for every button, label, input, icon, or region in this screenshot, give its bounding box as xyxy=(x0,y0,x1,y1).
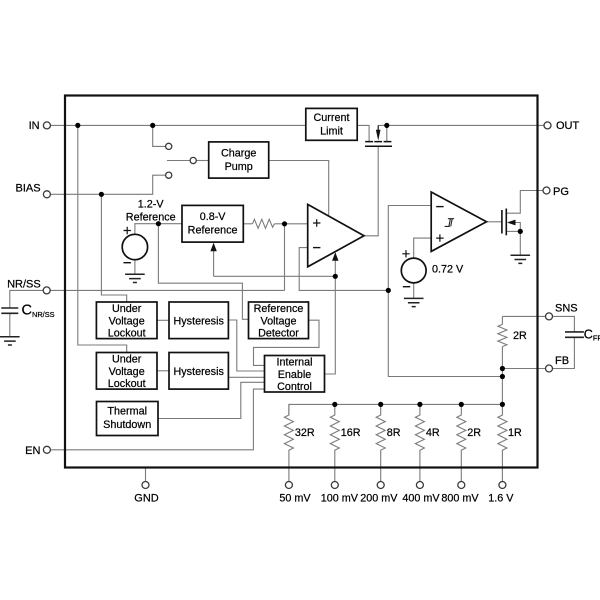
box Under Voltage Lockout 1 xyxy=(96,302,157,339)
box Hysteresis 2 xyxy=(169,353,228,390)
svg-text:32R: 32R xyxy=(295,427,315,439)
svg-text:Pump: Pump xyxy=(225,161,253,173)
svg-text:Hysteresis: Hysteresis xyxy=(173,366,224,378)
wire 2R bottom to FB xyxy=(501,347,503,369)
svg-text:OUT: OUT xyxy=(556,120,580,132)
ground under 0.72 V source xyxy=(404,298,424,306)
terminal OUT xyxy=(544,122,551,129)
LADDER RESISTORS xyxy=(284,404,507,481)
svg-text:200 mV: 200 mV xyxy=(360,492,398,504)
switch contact bottom xyxy=(166,172,172,178)
wire current-limit to pass FET source xyxy=(357,125,369,141)
voltage source 0.72 V xyxy=(401,250,426,287)
svg-text:Shutdown: Shutdown xyxy=(103,419,151,431)
wire error amp output to gate xyxy=(364,146,378,236)
resistor 1R xyxy=(498,404,507,481)
svg-text:Voltage: Voltage xyxy=(109,366,145,378)
terminal 400mV xyxy=(416,482,423,489)
terminal FB xyxy=(546,365,553,372)
wire EN to IEC xyxy=(50,389,264,450)
wire PG FET drain to PG xyxy=(506,191,543,214)
wire charge pump to error amp top xyxy=(269,161,329,217)
svg-text:FB: FB xyxy=(555,355,569,367)
BOXES xyxy=(96,108,357,435)
svg-text:0.72 V: 0.72 V xyxy=(432,263,464,275)
transistor Q2 PG NMOS xyxy=(502,209,516,236)
wire UVLO2 to Hysteresis2 xyxy=(157,370,169,372)
svg-text:SNS: SNS xyxy=(555,303,578,315)
wire switch pole to charge pump xyxy=(196,160,208,162)
node +input xyxy=(282,221,287,226)
svg-text:1R: 1R xyxy=(508,427,522,439)
terminal 100mV xyxy=(331,482,338,489)
svg-text:Voltage: Voltage xyxy=(260,315,296,327)
svg-text:8R: 8R xyxy=(387,427,401,439)
wire 0.72V source to ground xyxy=(413,283,415,298)
wire +input node to NR/SS xyxy=(284,224,286,291)
wire NR/SS external to cap xyxy=(10,290,43,308)
wire 1.2V source bottom to ground xyxy=(134,260,136,275)
node rail 4R xyxy=(417,402,422,407)
svg-text:Thermal: Thermal xyxy=(107,406,147,418)
node FB-2R xyxy=(500,366,505,371)
svg-text:Reference: Reference xyxy=(254,303,304,315)
wire PG FET body stub xyxy=(509,223,520,256)
wire IN line xyxy=(51,124,306,126)
resistor 2R xyxy=(498,324,507,346)
node IN-switch xyxy=(150,123,155,128)
wire 1.2V source top xyxy=(135,224,182,235)
node OUT-drain xyxy=(384,123,389,128)
svg-text:Current: Current xyxy=(313,112,349,124)
wire SNS line xyxy=(502,315,545,317)
svg-text:400 mV: 400 mV xyxy=(402,492,440,504)
node A enable xyxy=(333,274,338,279)
resistor 8R xyxy=(376,404,385,481)
op-amp U2 PG comparator xyxy=(431,192,486,251)
wire Hysteresis2 to IEC xyxy=(228,376,264,378)
ground under PG NMOS xyxy=(511,255,531,263)
wire cap to ground xyxy=(9,313,11,337)
wire RVD output to IEC xyxy=(254,320,320,365)
wire OUT line xyxy=(387,124,544,126)
svg-text:0.8-V: 0.8-V xyxy=(200,211,227,223)
resistor 32R xyxy=(284,404,293,481)
arrow enable into error amp xyxy=(332,252,338,261)
ground under 1.2-V source xyxy=(125,274,145,282)
svg-text:1.2-V: 1.2-V xyxy=(138,198,165,210)
wire resistor to +input xyxy=(275,223,308,225)
node rail 8R xyxy=(378,402,383,407)
svg-text:50 mV: 50 mV xyxy=(279,492,311,504)
ladder top rail xyxy=(289,404,503,415)
svg-text:Control: Control xyxy=(277,381,312,393)
TERMINALS xyxy=(43,122,552,489)
svg-text:100 mV: 100 mV xyxy=(321,492,359,504)
wire GND stub xyxy=(145,468,147,482)
svg-text:Voltage: Voltage xyxy=(109,315,145,327)
wire PG comp minus vertical xyxy=(388,206,502,377)
ground under CNR/SS xyxy=(0,337,20,345)
svg-text:BIAS: BIAS xyxy=(16,182,41,194)
svg-text:Under: Under xyxy=(112,303,142,315)
terminal GND xyxy=(142,482,149,489)
voltage source 1.2-V reference xyxy=(122,227,147,263)
svg-text:2R: 2R xyxy=(513,330,527,342)
wire FB down to ladder xyxy=(501,369,503,405)
box Under Voltage Lockout 2 xyxy=(96,353,157,390)
box Internal Enable Control xyxy=(265,356,325,393)
node rail 1R xyxy=(500,402,505,407)
node PG source xyxy=(518,229,523,234)
terminal PG xyxy=(543,187,550,194)
wire BIAS to UVLO1 xyxy=(101,194,126,302)
node A line xyxy=(214,275,336,277)
box Current Limit xyxy=(306,108,357,140)
terminal 50mV xyxy=(285,482,292,489)
wire CFF to FB xyxy=(553,337,575,368)
wire IN to UVLO2 xyxy=(78,125,127,352)
svg-text:EN: EN xyxy=(25,445,40,457)
svg-text:Enable: Enable xyxy=(278,369,312,381)
terminal 800mV xyxy=(458,482,465,489)
terminal 1.6V xyxy=(499,482,506,489)
box 0.8-V Reference xyxy=(182,205,243,242)
terminal IN xyxy=(43,122,50,129)
svg-text:16R: 16R xyxy=(341,427,361,439)
node rail 2R xyxy=(459,402,464,407)
svg-text:Internal: Internal xyxy=(276,357,312,369)
box Thermal Shutdown xyxy=(97,402,159,436)
svg-text:Lockout: Lockout xyxy=(108,378,146,390)
terminal SNS xyxy=(546,313,553,320)
wire PG comp plus to 0.72V source xyxy=(414,238,432,258)
svg-text:NR/SS: NR/SS xyxy=(7,279,41,291)
node IN-UVLO2 xyxy=(75,123,80,128)
terminal BIAS xyxy=(43,191,50,198)
wire error amp minus loop xyxy=(299,248,388,291)
svg-text:Detector: Detector xyxy=(258,328,299,340)
wire Hysteresis1 to IEC xyxy=(228,320,264,371)
wire CFF external xyxy=(553,316,575,332)
svg-text:GND: GND xyxy=(134,492,159,504)
terminal EN xyxy=(43,446,50,453)
wire 0.8V enable arrow stem xyxy=(213,250,215,277)
wire BIAS line xyxy=(50,175,165,194)
svg-text:Under: Under xyxy=(112,354,142,366)
wire 0.8V ref output to resistor xyxy=(243,223,252,225)
svg-text:Charge: Charge xyxy=(221,148,256,160)
box Charge Pump xyxy=(209,142,269,178)
svg-text:Hysteresis: Hysteresis xyxy=(173,315,224,327)
wire Thermal Shutdown to IEC xyxy=(158,382,265,418)
resistor 16R xyxy=(330,404,339,481)
wire FB line xyxy=(502,368,545,370)
resistor R (ref filter) xyxy=(253,219,275,228)
capacitor CNR/SS xyxy=(1,308,18,313)
wire node A to IEC xyxy=(325,259,336,374)
svg-text:Limit: Limit xyxy=(320,125,343,137)
box Reference Voltage Detector xyxy=(249,302,309,339)
op-amp U1 error amplifier xyxy=(308,204,364,266)
wire UVLO1 to Hysteresis1 xyxy=(157,319,169,321)
resistor 4R xyxy=(415,404,424,481)
node minus-FB xyxy=(386,288,391,293)
svg-text:2R: 2R xyxy=(467,427,481,439)
node BIAS-UVLO1 xyxy=(99,192,104,197)
svg-text:IN: IN xyxy=(29,120,40,132)
wire pass FET drain stubs xyxy=(378,125,387,141)
svg-text:800 mV: 800 mV xyxy=(441,492,479,504)
svg-text:4R: 4R xyxy=(426,427,440,439)
wire PG FET source stub xyxy=(506,230,520,232)
switch contact top xyxy=(166,143,172,149)
arrow enable into 0.8-V reference xyxy=(210,243,216,252)
wire 2R top xyxy=(501,316,503,324)
svg-text:1.6 V: 1.6 V xyxy=(488,492,514,504)
outer border xyxy=(65,96,538,468)
wire PG comp output xyxy=(487,221,502,223)
node 1.2V-ref xyxy=(156,221,161,226)
wire IN to switch top contact xyxy=(153,125,166,146)
resistor 2R (ladder) xyxy=(457,404,466,481)
wire 1.2V node to RVD input xyxy=(158,224,248,320)
svg-text:Reference: Reference xyxy=(126,212,176,224)
svg-text:Lockout: Lockout xyxy=(108,328,146,340)
terminal 200mV xyxy=(377,482,384,489)
wire NR/SS line xyxy=(50,289,284,291)
node FB-join xyxy=(500,374,505,379)
terminal NR/SS xyxy=(43,287,50,294)
transistor Q1 pass PMOS xyxy=(365,125,392,146)
switch pole xyxy=(190,157,196,163)
node rail 16R xyxy=(332,402,337,407)
wire switch arm xyxy=(167,160,190,162)
svg-text:Reference: Reference xyxy=(188,225,238,237)
capacitor CFF xyxy=(565,332,584,337)
svg-text:PG: PG xyxy=(553,186,569,198)
box Hysteresis 1 xyxy=(169,302,228,339)
